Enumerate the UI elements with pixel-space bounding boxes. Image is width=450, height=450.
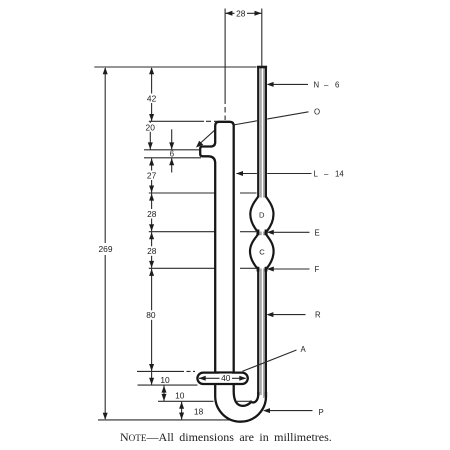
svg-text:NOTE—All dimensions are in mil: NOTE—All dimensions are in millimetres. bbox=[120, 430, 332, 444]
waist between D and C (etched ring E) bbox=[258, 230, 266, 238]
dimension 28 (top) extension line left x=225 bbox=[224, 9, 226, 121]
extension line y=231.7 (level E) bbox=[149, 231, 256, 233]
svg-text:10: 10 bbox=[175, 391, 185, 401]
svg-text:O: O bbox=[314, 108, 320, 117]
dimension 42 bbox=[151, 68, 153, 121]
dimension 269 arrows bbox=[103, 67, 108, 419]
leader F bbox=[271, 268, 310, 270]
svg-text:N: N bbox=[314, 80, 320, 89]
reservoir tube O with side arm (left tube) bbox=[200, 122, 234, 373]
svg-text:6: 6 bbox=[170, 149, 175, 158]
dimension 27 bbox=[151, 158, 153, 192]
U-bend inner wall bbox=[234, 382, 259, 406]
top reference extension line y=67 bbox=[94, 66, 256, 68]
pinch below bulb C (ring F) bbox=[258, 267, 266, 272]
svg-text:28: 28 bbox=[236, 8, 246, 18]
dimension 40 inside bulb A bbox=[199, 377, 246, 379]
extension line y=371.4 (bulb A top) bbox=[137, 370, 195, 372]
lower U-bend of tube P bbox=[215, 382, 266, 422]
dimension 10 (lower) bbox=[163, 386, 165, 401]
bottom reference line y=420 bbox=[98, 419, 233, 421]
leader R bbox=[270, 314, 306, 316]
dimension 269 vertical line bbox=[104, 68, 106, 419]
extension line y=385 (bulb A bottom) bbox=[138, 384, 198, 386]
extension line y=268.3 (level F) bbox=[149, 267, 256, 269]
svg-text:42: 42 bbox=[147, 93, 157, 103]
svg-text:10: 10 bbox=[160, 375, 170, 385]
svg-text:18: 18 bbox=[194, 407, 204, 417]
svg-text:F: F bbox=[315, 265, 320, 274]
dimension 20 bbox=[149, 122, 151, 150]
leader E bbox=[271, 231, 310, 233]
svg-text:27: 27 bbox=[147, 170, 157, 180]
leader L (under glass) bbox=[237, 173, 312, 175]
svg-text:R: R bbox=[315, 311, 321, 320]
svg-text:80: 80 bbox=[146, 310, 156, 320]
svg-text:L: L bbox=[314, 170, 319, 179]
svg-text:P: P bbox=[319, 408, 324, 417]
svg-text:269: 269 bbox=[99, 244, 113, 254]
bulb C bbox=[250, 235, 274, 269]
svg-text:6: 6 bbox=[335, 80, 339, 89]
dimension 80 bbox=[151, 269, 153, 371]
svg-text:C: C bbox=[259, 247, 265, 256]
capillary end level line inside U-bend bbox=[237, 400, 252, 402]
dimension 28 (top) extension line right x=261.8 bbox=[261, 9, 263, 67]
leader A (drawn over glass) bbox=[243, 350, 297, 371]
capillary / riser tube (N,R) walls bbox=[257, 67, 267, 399]
svg-text:A: A bbox=[301, 345, 307, 354]
leader P bbox=[265, 410, 313, 412]
extension line y=193 bbox=[149, 192, 257, 194]
svg-text:28: 28 bbox=[147, 209, 157, 219]
leader N bbox=[269, 83, 308, 85]
svg-text:20: 20 bbox=[146, 122, 156, 132]
leader O arrowhead bbox=[196, 141, 203, 148]
bulb D bbox=[250, 197, 273, 232]
dimension 18 bbox=[181, 402, 183, 420]
extension line y=401.3 (capillary end level) bbox=[158, 400, 214, 402]
capillary / riser tube (N,R) white underlay bbox=[257, 66, 267, 391]
svg-text:40: 40 bbox=[221, 373, 231, 383]
svg-text:E: E bbox=[315, 228, 320, 237]
extension line: side arm bottom y=157.8 bbox=[144, 157, 201, 159]
svg-text:14: 14 bbox=[335, 170, 344, 179]
svg-text:28: 28 bbox=[147, 246, 157, 256]
leader O (under glass) bbox=[200, 112, 309, 144]
bulb A (40 mm horizontal bulb) bbox=[197, 373, 247, 384]
U-bend outer wall bbox=[215, 382, 266, 422]
extension line: side arm bore top y=150 bbox=[144, 149, 200, 151]
extension line: top of reservoir tube y=121.5 bbox=[149, 120, 219, 122]
dimension 6 bbox=[171, 129, 173, 172]
dimension 28 (C) bbox=[151, 232, 153, 268]
svg-text:D: D bbox=[259, 211, 265, 220]
dimension 10 (bulb A height) bbox=[151, 372, 153, 385]
dimension 28 (D) bbox=[151, 193, 153, 231]
svg-text:–: – bbox=[324, 170, 329, 179]
svg-text:–: – bbox=[324, 80, 329, 89]
dimension 28 (top) line and arrows bbox=[225, 12, 262, 14]
